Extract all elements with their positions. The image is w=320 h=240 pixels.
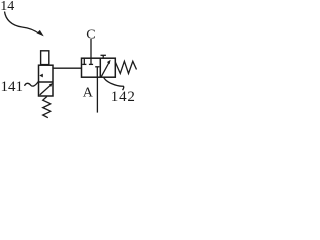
flow diagonal in valve 141 lower cell — [40, 84, 52, 95]
blocked stub of port A — [95, 66, 99, 68]
svg-text:14: 14 — [0, 0, 14, 14]
arrow marker in valve 141 upper cell — [39, 74, 43, 78]
flow diagonal in valve 142 right cell — [101, 63, 109, 77]
svg-text:141: 141 — [1, 79, 24, 95]
valve 142 position divider — [99, 58, 101, 77]
leader from 142 — [104, 77, 124, 90]
blocked tee above valve 142 right cell — [102, 55, 104, 58]
valve 142 body — [82, 58, 116, 77]
svg-text:A: A — [83, 86, 94, 101]
svg-text:142: 142 — [111, 89, 136, 105]
blocked stub left in valve 142 — [83, 58, 85, 64]
leader arrow from 14 — [5, 12, 40, 34]
port line A — [96, 77, 98, 113]
leader from 141 — [25, 81, 39, 86]
valve 141 body — [39, 65, 54, 96]
pilot wire from valve 141 to valve 142 — [53, 67, 82, 69]
return spring below valve 141 — [43, 97, 51, 118]
actuator cap of valve 141 — [41, 51, 49, 65]
blocked stub of port C — [90, 58, 92, 64]
return spring right of valve 142 — [115, 61, 136, 73]
port line C — [90, 39, 92, 58]
valve 141 position divider — [39, 81, 54, 83]
